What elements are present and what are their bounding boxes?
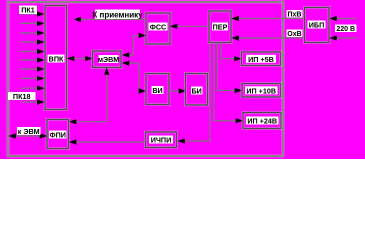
- wire ПхВ (ИБП to ПЕР): [232, 16, 305, 21]
- wire 220В line 1: [330, 16, 357, 21]
- wire ПК18 input 10: [21, 99, 45, 104]
- label ПК1: [19, 6, 37, 15]
- wire ФСС-ПЕР: [170, 24, 209, 29]
- svg-text:БИ: БИ: [192, 87, 202, 96]
- wire ВПК-мЭВМ bidirectional: [67, 56, 93, 61]
- svg-text:ВИ: ВИ: [152, 86, 162, 95]
- wire ПЕР-ИП+5В (v4): [221, 43, 242, 62]
- wire ПК4 input 4: [20, 39, 45, 44]
- svg-text:220 В: 220 В: [336, 26, 355, 33]
- wire мЭВМ-ФПИ bidirectional: [69, 68, 109, 125]
- svg-text:ИП +24В: ИП +24В: [247, 117, 277, 126]
- wire ПК1 input 1: [20, 11, 45, 16]
- wire ПК5 input 5: [20, 49, 45, 54]
- wire ФПИ-ИЧПИ: [69, 139, 146, 144]
- label ПК18: [8, 92, 36, 101]
- wire к ЭВМ bidirectional: [9, 133, 48, 138]
- wire ОхВ (ИБП to ПЕР): [232, 35, 305, 40]
- wire мЭВМ-ВИ bidirectional: [122, 60, 146, 93]
- box ФПИ: [47, 120, 69, 149]
- svg-text:К приемнику: К приемнику: [92, 11, 143, 20]
- svg-text:ИП +5В: ИП +5В: [248, 55, 274, 64]
- box мЭВМ: [93, 51, 122, 68]
- svg-text:ПхВ: ПхВ: [288, 12, 302, 19]
- box ИП +5В: [242, 52, 281, 66]
- box ВИ: [146, 74, 169, 105]
- box ПЕР: [209, 11, 231, 43]
- wire мЭВМ-ФСС bidirectional: [122, 33, 146, 58]
- box БИ: [186, 74, 208, 106]
- svg-text:ПК1: ПК1: [21, 6, 35, 15]
- wire ПЕР-ИЧПИ (v1): [178, 43, 211, 144]
- enclosure frame: [8, 2, 283, 156]
- wire ВИ-БИ: [169, 88, 186, 93]
- box ИП +10В: [242, 84, 281, 98]
- label 220 В: [335, 25, 357, 34]
- svg-text:ФПИ: ФПИ: [49, 131, 65, 140]
- label К приемнику: [92, 10, 143, 20]
- box ИЧПИ: [146, 132, 177, 148]
- svg-text:ИЧПИ: ИЧПИ: [151, 136, 172, 145]
- wire ПЕР-ИП+10В (v3): [218, 43, 243, 94]
- svg-text:ПК18: ПК18: [13, 92, 31, 101]
- svg-text:ОхВ: ОхВ: [287, 31, 301, 38]
- wire ПЕР-ИП+24В (v2): [214, 43, 243, 124]
- wire ПК6 input 6: [20, 57, 45, 62]
- svg-text:мЭВМ: мЭВМ: [98, 55, 120, 64]
- label к ЭВМ: [17, 127, 41, 136]
- svg-text:ИБП: ИБП: [309, 21, 325, 30]
- svg-text:ИП +10В: ИП +10В: [246, 86, 276, 95]
- svg-text:ВПК: ВПК: [49, 55, 64, 64]
- wire ПК9 input 9: [20, 86, 45, 91]
- box ВПК: [45, 6, 67, 110]
- svg-text:ПЕР: ПЕР: [213, 23, 228, 32]
- label ОхВ: [287, 30, 303, 39]
- box ИБП: [305, 8, 330, 43]
- wire К приемнику: [74, 17, 146, 22]
- box ФСС: [146, 13, 170, 44]
- wire ПК3 input 3: [20, 30, 45, 35]
- label ПхВ: [287, 10, 303, 19]
- wire 220В line 2: [330, 35, 357, 40]
- wire ПК7 input 7: [20, 66, 45, 71]
- wire ПК2 input 2: [20, 21, 45, 26]
- wire ПК8 input 8: [20, 76, 45, 81]
- svg-text:ФСС: ФСС: [150, 23, 167, 32]
- box ИП +24В: [243, 113, 281, 129]
- svg-text:к ЭВМ: к ЭВМ: [18, 127, 40, 136]
